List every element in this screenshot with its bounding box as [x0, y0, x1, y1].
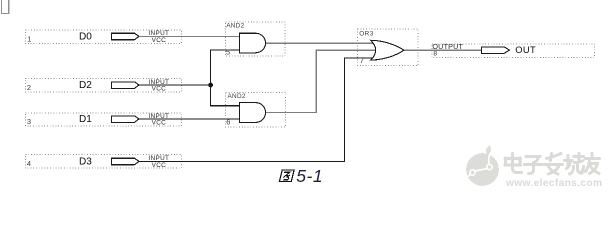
output pin symbol: [481, 47, 509, 54]
wire junction up to AND1 lower input: [211, 50, 240, 85]
svg-text:VCC: VCC: [152, 37, 167, 44]
input pin D0 selection box: [26, 30, 182, 44]
watermark hanzi 电子发烧友 (approx strokes): [505, 154, 600, 175]
svg-text:D0: D0: [79, 32, 92, 43]
OR gate body: [371, 40, 404, 60]
input pin D2 selection box: [26, 78, 182, 92]
svg-text:AND2: AND2: [228, 93, 246, 100]
watermark logo disc: [466, 146, 499, 186]
junction node: [208, 83, 213, 88]
svg-text:2: 2: [27, 83, 31, 92]
svg-text:5-1: 5-1: [296, 166, 323, 186]
wire junction down to AND2 gate2 top input: [211, 85, 240, 106]
svg-text:7: 7: [360, 56, 364, 65]
wire OR3 output to OUTPUT pin: [404, 49, 482, 51]
svg-text:VCC: VCC: [152, 162, 167, 169]
input pin D1 selection box: [26, 113, 182, 126]
wire AND1 output to OR3 top input: [266, 42, 374, 44]
svg-text:5: 5: [226, 48, 230, 57]
svg-text:D3: D3: [79, 157, 92, 168]
input pin symbol D3: [112, 158, 139, 165]
svg-text:VCC: VCC: [152, 86, 167, 93]
AND gate U5 body: [239, 33, 265, 53]
svg-text:4: 4: [27, 159, 31, 168]
hanzi zi: [525, 157, 543, 174]
partial frame corner top-left: [2, 0, 9, 13]
wire D1 to AND2 gate2 lower input: [139, 118, 239, 120]
svg-text:OUT: OUT: [515, 45, 536, 55]
wire D0 to AND1 top input: [139, 35, 239, 37]
OUTPUT pin selection box: [432, 44, 595, 58]
svg-text:6: 6: [226, 118, 230, 127]
svg-text:3: 3: [27, 117, 31, 126]
hanzi you: [586, 154, 600, 174]
hanzi fa: [545, 154, 563, 175]
wire D3 to OR3 bottom input: [139, 58, 374, 161]
svg-text:8: 8: [433, 50, 437, 57]
wire AND2 gate2 output to OR3 middle input: [266, 50, 378, 112]
wire D2 to junction: [139, 84, 211, 86]
input pin D3 selection box: [26, 155, 182, 168]
svg-text:OR3: OR3: [359, 31, 374, 38]
svg-text:AND2: AND2: [226, 23, 244, 30]
svg-text:1: 1: [27, 34, 31, 43]
input pin symbol D0: [112, 33, 139, 40]
AND2 gate U6 selection box: [226, 93, 286, 127]
OR3 gate selection box: [358, 29, 418, 66]
input pin symbol D1: [112, 116, 139, 123]
AND2 gate U5 selection box: [226, 22, 285, 56]
svg-text:D2: D2: [79, 80, 92, 91]
AND gate U6 body: [239, 103, 265, 123]
input pin symbol D2: [112, 82, 139, 89]
svg-text:D1: D1: [79, 114, 92, 125]
svg-text:www.elecfans.com: www.elecfans.com: [505, 178, 602, 189]
caption: hanzi 图 drawn as strokes: [279, 170, 294, 182]
svg-text:VCC: VCC: [152, 120, 167, 127]
hanzi shao: [565, 154, 584, 175]
hanzi dian: [505, 154, 522, 173]
